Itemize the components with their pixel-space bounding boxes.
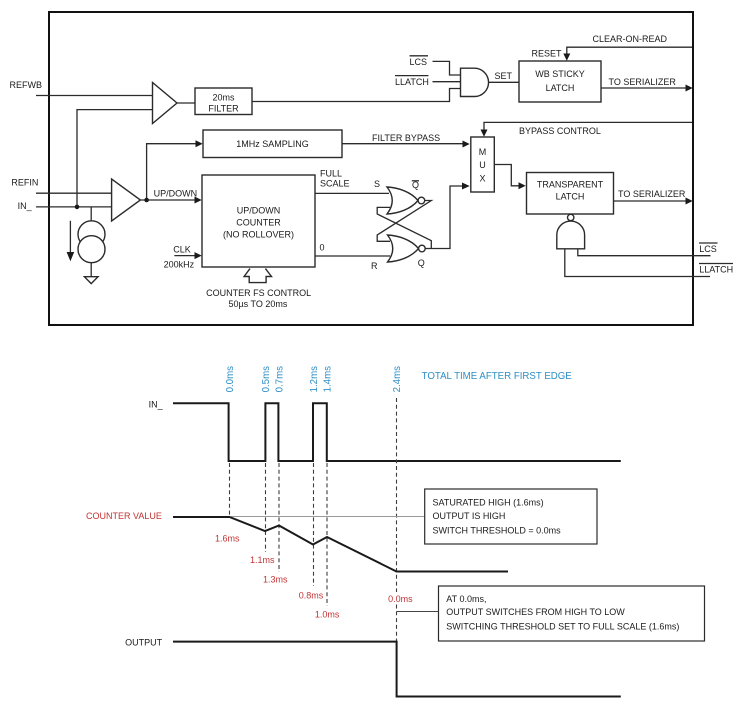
wire IN_ input bbox=[36, 206, 112, 208]
svg-text:COUNTER: COUNTER bbox=[236, 217, 281, 227]
wire dashed marker 1.2ms bbox=[313, 463, 315, 586]
nor gate U8 (bottom of SR latch) bbox=[388, 235, 419, 262]
wire OUTPUT waveform bbox=[173, 642, 621, 697]
AND gate U2 bbox=[461, 68, 489, 96]
svg-text:(NO ROLLOVER): (NO ROLLOVER) bbox=[223, 229, 294, 239]
nand gate U10 (latch enable) bbox=[568, 214, 574, 220]
op-amp U1 buffer bbox=[153, 83, 178, 124]
svg-text:TO SERIALIZER: TO SERIALIZER bbox=[618, 189, 686, 199]
sampler 1MHz SAMPLING box bbox=[203, 130, 342, 158]
svg-text:OUTPUT SWITCHES FROM HIGH TO L: OUTPUT SWITCHES FROM HIGH TO LOW bbox=[446, 607, 625, 617]
filter F1 20ms box bbox=[195, 88, 252, 115]
wire cross-couple bottom output to top input bbox=[377, 207, 431, 248]
wire 0 to R input bbox=[315, 255, 390, 257]
svg-text:50µs TO 20ms: 50µs TO 20ms bbox=[228, 299, 287, 309]
svg-text:20ms: 20ms bbox=[212, 92, 235, 102]
svg-text:REFWB: REFWB bbox=[10, 80, 43, 90]
wire LCS to AND gate bbox=[433, 61, 461, 75]
wire dashed marker 0.5ms bbox=[265, 463, 267, 552]
wire NAND input to LCS bbox=[578, 249, 711, 256]
wire comparator node to sampler input bbox=[147, 144, 196, 200]
wire 20ms filter output to AND gate bbox=[252, 89, 461, 102]
svg-text:SCALE: SCALE bbox=[320, 179, 350, 189]
wire dashed marker 0.7ms bbox=[278, 463, 280, 572]
svg-text:TRANSPARENT: TRANSPARENT bbox=[537, 179, 604, 189]
wire full scale to S input bbox=[315, 192, 389, 194]
svg-text:SATURATED HIGH (1.6ms): SATURATED HIGH (1.6ms) bbox=[433, 498, 544, 508]
svg-text:200kHz: 200kHz bbox=[164, 260, 195, 270]
svg-text:COUNTER FS CONTROL: COUNTER FS CONTROL bbox=[206, 288, 311, 298]
wire callout connector bbox=[397, 611, 439, 613]
svg-text:0.5ms: 0.5ms bbox=[261, 366, 272, 393]
svg-text:U: U bbox=[479, 160, 486, 170]
wire Q output to MUX bbox=[425, 186, 462, 249]
wire FILTER BYPASS bbox=[342, 143, 463, 145]
current source I1 bbox=[90, 207, 92, 221]
wire transparent latch to serializer bbox=[614, 200, 686, 202]
latch U4 WB STICKY LATCH bbox=[519, 61, 601, 102]
wire dashed marker 0.0ms bbox=[229, 463, 231, 515]
wire REFIN input bbox=[36, 192, 112, 194]
svg-text:REFIN: REFIN bbox=[11, 178, 38, 188]
svg-text:Q: Q bbox=[412, 180, 419, 190]
svg-text:UP/DOWN: UP/DOWN bbox=[237, 205, 281, 215]
svg-text:BYPASS CONTROL: BYPASS CONTROL bbox=[519, 126, 601, 136]
svg-text:LCS: LCS bbox=[699, 244, 717, 254]
svg-text:LATCH: LATCH bbox=[546, 83, 575, 93]
svg-text:IN_: IN_ bbox=[18, 201, 33, 211]
svg-text:RESET: RESET bbox=[532, 49, 563, 59]
wire UP/DOWN bbox=[140, 199, 194, 201]
latch U9 TRANSPARENT LATCH bbox=[527, 173, 614, 215]
svg-text:TO SERIALIZER: TO SERIALIZER bbox=[609, 77, 677, 87]
svg-text:WB STICKY: WB STICKY bbox=[535, 69, 585, 79]
counter U6 UP/DOWN COUNTER bbox=[202, 175, 315, 267]
comparator U3 bbox=[112, 179, 141, 221]
wire CLK bbox=[174, 255, 194, 257]
svg-text:CLK: CLK bbox=[173, 245, 191, 255]
wire saturated level reference line bbox=[231, 516, 425, 518]
ground bbox=[84, 277, 98, 284]
wire SET bbox=[489, 81, 519, 83]
counter FS control arrow symbol bbox=[244, 269, 271, 283]
mux M1 bbox=[471, 137, 495, 192]
svg-text:1.6ms: 1.6ms bbox=[215, 534, 240, 544]
wire WB latch to serializer bbox=[601, 87, 686, 89]
wire IN_ waveform bbox=[173, 403, 621, 461]
wire NAND input to LLATCH bbox=[565, 249, 710, 277]
svg-text:CLEAR-ON-READ: CLEAR-ON-READ bbox=[593, 34, 668, 44]
wire CLEAR-ON-READ bbox=[567, 47, 692, 53]
wire buffer output bbox=[177, 102, 195, 104]
svg-text:SWITCHING THRESHOLD SET TO FUL: SWITCHING THRESHOLD SET TO FULL SCALE (1… bbox=[446, 621, 679, 631]
svg-text:OUTPUT: OUTPUT bbox=[125, 638, 163, 648]
wire dashed marker 2.4ms bbox=[396, 398, 398, 592]
svg-text:M: M bbox=[479, 147, 487, 157]
wire BYPASS CONTROL bbox=[484, 122, 692, 129]
svg-text:FULL: FULL bbox=[320, 169, 342, 179]
svg-text:FILTER: FILTER bbox=[208, 104, 239, 114]
svg-text:LLATCH: LLATCH bbox=[699, 265, 733, 275]
wire counter value ramp bbox=[173, 517, 508, 572]
svg-text:LLATCH: LLATCH bbox=[395, 77, 429, 87]
svg-text:0: 0 bbox=[320, 243, 325, 253]
nor gate U7 (top of SR latch) bbox=[387, 187, 418, 214]
callout box at 0.0ms bbox=[439, 586, 705, 641]
svg-text:1.3ms: 1.3ms bbox=[263, 575, 288, 585]
svg-text:LCS: LCS bbox=[410, 57, 428, 67]
svg-text:AT 0.0ms,: AT 0.0ms, bbox=[446, 594, 486, 604]
svg-text:LATCH: LATCH bbox=[556, 191, 585, 201]
svg-text:Q: Q bbox=[418, 258, 425, 268]
wire MUX output to transparent latch bbox=[494, 165, 518, 186]
outer block-diagram border bbox=[49, 12, 693, 325]
wire REFWB input bbox=[36, 95, 153, 97]
svg-text:0.7ms: 0.7ms bbox=[275, 366, 286, 393]
svg-text:1.0ms: 1.0ms bbox=[315, 610, 340, 620]
current direction arrow bbox=[69, 221, 71, 253]
callout box saturated high bbox=[425, 489, 597, 544]
svg-text:X: X bbox=[479, 173, 485, 183]
svg-text:1.1ms: 1.1ms bbox=[250, 555, 275, 565]
svg-text:UP/DOWN: UP/DOWN bbox=[154, 188, 198, 198]
junction comparator output bbox=[144, 198, 149, 203]
svg-text:0.8ms: 0.8ms bbox=[299, 590, 324, 600]
svg-text:S: S bbox=[374, 179, 380, 189]
svg-text:R: R bbox=[371, 261, 378, 271]
svg-text:0.0ms: 0.0ms bbox=[388, 594, 413, 604]
svg-text:TOTAL TIME AFTER FIRST EDGE: TOTAL TIME AFTER FIRST EDGE bbox=[422, 371, 573, 382]
junction on IN_ line bbox=[75, 205, 80, 210]
svg-text:2.4ms: 2.4ms bbox=[392, 366, 403, 393]
svg-text:1MHz SAMPLING: 1MHz SAMPLING bbox=[236, 139, 309, 149]
svg-text:0.0ms: 0.0ms bbox=[225, 366, 236, 393]
wire buffer second input from IN_ node bbox=[77, 110, 153, 207]
svg-text:1.2ms: 1.2ms bbox=[309, 366, 320, 393]
svg-text:IN_: IN_ bbox=[149, 400, 164, 410]
svg-text:COUNTER VALUE: COUNTER VALUE bbox=[86, 511, 162, 521]
svg-text:SET: SET bbox=[495, 71, 513, 81]
svg-text:OUTPUT IS HIGH: OUTPUT IS HIGH bbox=[433, 511, 506, 521]
svg-text:SWITCH THRESHOLD = 0.0ms: SWITCH THRESHOLD = 0.0ms bbox=[433, 526, 562, 536]
svg-text:FILTER BYPASS: FILTER BYPASS bbox=[372, 133, 440, 143]
wire cross-couple top output to bottom input bbox=[377, 201, 431, 242]
svg-text:1.4ms: 1.4ms bbox=[323, 366, 334, 393]
wire dashed marker 1.4ms bbox=[326, 463, 328, 606]
wire LLATCH to AND gate bbox=[433, 81, 461, 83]
